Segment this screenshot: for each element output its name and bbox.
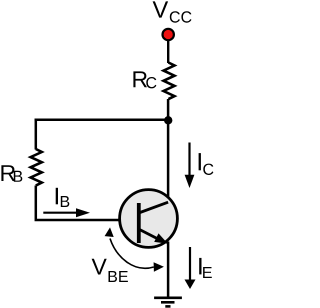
transistor Q1 emitter stroke	[140, 230, 161, 241]
VCC supply terminal	[163, 29, 174, 40]
transistor Q1 emitter arrow	[154, 233, 168, 243]
ground bar 2	[161, 301, 175, 304]
label RC C	[146, 77, 156, 88]
label RB B	[14, 171, 22, 182]
wire emitter to ground	[167, 242, 170, 298]
label VBE BE	[109, 271, 128, 282]
label IE E	[203, 267, 212, 278]
VBE arc arrowhead up	[105, 227, 114, 237]
arrow IE	[189, 247, 191, 281]
arrow IB	[43, 212, 78, 214]
wire VCC terminal to RC	[167, 41, 169, 63]
wire left down to RB	[35, 119, 38, 150]
wire RC to collector	[167, 99, 170, 203]
arrow IC	[188, 143, 190, 177]
wire junction to left	[35, 118, 169, 121]
label IC C	[203, 164, 213, 175]
resistor RB	[31, 149, 42, 186]
label RC R	[133, 71, 147, 87]
transistor Q1 base bar	[137, 203, 141, 243]
label VCC CC	[170, 11, 192, 22]
wire RB to base	[36, 186, 120, 221]
label VCC V	[153, 1, 169, 17]
transistor Q1 body	[120, 190, 178, 248]
label IE I	[199, 258, 201, 275]
resistor RC	[164, 63, 175, 100]
ground bar 1	[154, 296, 182, 299]
label VBE V	[92, 259, 107, 275]
label IC I	[199, 153, 201, 170]
transistor Q1 collector stroke	[140, 202, 168, 212]
label IB I	[56, 188, 58, 205]
VBE arc arrowhead right	[154, 262, 164, 272]
label RB R	[1, 165, 15, 181]
ground bar 3	[165, 305, 170, 308]
junction node feedback	[164, 116, 172, 124]
VBE arc arrow	[110, 239, 154, 269]
label IB B	[61, 196, 70, 207]
